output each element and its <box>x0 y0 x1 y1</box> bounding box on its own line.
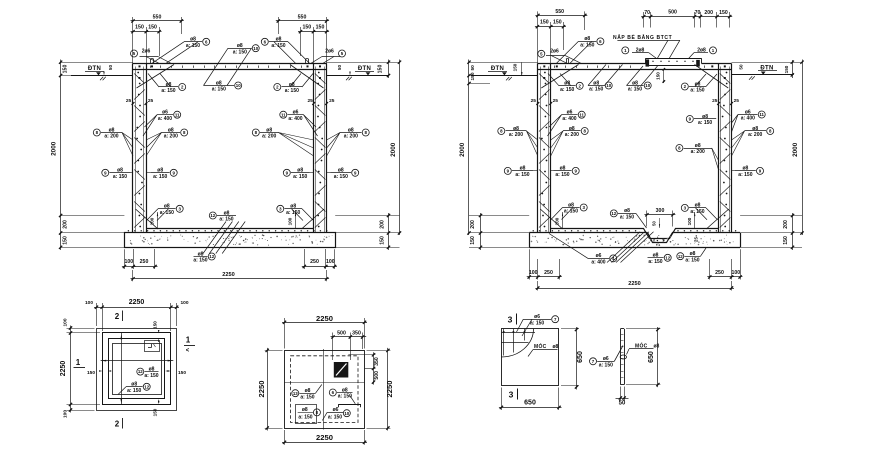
svg-text:a: 150: a: 150 <box>698 120 712 126</box>
svg-text:ø8: ø8 <box>702 114 708 120</box>
svg-text:ø6: ø6 <box>293 110 299 116</box>
svg-text:ø8: ø8 <box>569 126 575 132</box>
svg-text:200: 200 <box>704 10 713 16</box>
svg-text:150: 150 <box>153 408 158 416</box>
svg-text:150: 150 <box>470 72 476 80</box>
svg-text:a: 150: a: 150 <box>560 87 574 93</box>
svg-text:ø6: ø6 <box>603 356 609 362</box>
svg-text:200: 200 <box>380 220 386 229</box>
svg-text:a: 150: a: 150 <box>338 394 352 400</box>
svg-text:a: 400: a: 400 <box>288 116 302 122</box>
svg-text:a: 200: a: 200 <box>509 132 523 138</box>
svg-text:ø8: ø8 <box>190 37 196 43</box>
svg-text:150: 150 <box>513 63 518 71</box>
svg-text:200: 200 <box>63 220 69 229</box>
svg-text:2250: 2250 <box>316 433 333 442</box>
svg-text:12: 12 <box>678 254 683 259</box>
svg-text:150: 150 <box>470 236 476 245</box>
svg-text:550: 550 <box>298 15 307 21</box>
svg-text:100: 100 <box>124 259 133 265</box>
svg-text:70: 70 <box>695 10 701 16</box>
svg-text:a: 150: a: 150 <box>515 172 529 178</box>
svg-text:2ø6: 2ø6 <box>550 49 559 55</box>
svg-text:50: 50 <box>337 65 342 71</box>
svg-text:ø8: ø8 <box>117 168 123 174</box>
svg-text:250: 250 <box>310 259 319 265</box>
svg-text:a: 150: a: 150 <box>193 258 207 264</box>
svg-text:a: 150: a: 150 <box>212 87 226 93</box>
svg-text:ø6: ø6 <box>596 253 602 259</box>
svg-text:25: 25 <box>148 98 154 104</box>
svg-text:150: 150 <box>540 20 549 26</box>
svg-text:2250: 2250 <box>60 361 67 377</box>
svg-text:100: 100 <box>63 410 69 418</box>
svg-text:a: 150: a: 150 <box>233 49 247 55</box>
svg-text:3: 3 <box>509 390 514 400</box>
svg-text:a: 150: a: 150 <box>555 172 569 178</box>
svg-text:11: 11 <box>281 112 286 117</box>
svg-text:ø8: ø8 <box>305 388 311 394</box>
svg-text:150: 150 <box>63 65 69 74</box>
svg-text:a: 150: a: 150 <box>648 259 662 265</box>
svg-text:ø6: ø6 <box>745 109 751 115</box>
svg-text:ø6: ø6 <box>567 110 573 116</box>
svg-text:ø8: ø8 <box>568 202 574 208</box>
svg-text:a: 150: a: 150 <box>300 394 314 400</box>
svg-text:a: 150: a: 150 <box>334 174 348 180</box>
svg-text:a: 150: a: 150 <box>293 174 307 180</box>
svg-text:ø8: ø8 <box>164 204 170 210</box>
svg-text:a: 150: a: 150 <box>530 320 544 326</box>
svg-text:13: 13 <box>293 391 298 396</box>
svg-text:ø8: ø8 <box>157 168 163 174</box>
svg-text:a: 200: a: 200 <box>104 134 118 140</box>
svg-text:a: 400: a: 400 <box>562 116 576 122</box>
svg-text:350: 350 <box>352 330 361 336</box>
svg-text:a: 150: a: 150 <box>738 172 752 178</box>
svg-text:a: 400: a: 400 <box>158 116 172 122</box>
svg-text:2250: 2250 <box>628 281 640 287</box>
svg-text:2: 2 <box>115 312 120 321</box>
svg-text:25: 25 <box>308 98 314 104</box>
svg-text:a: 150: a: 150 <box>285 88 299 94</box>
svg-text:ø8: ø8 <box>297 168 303 174</box>
svg-text:100: 100 <box>63 318 69 326</box>
svg-text:a: 150: a: 150 <box>144 373 158 379</box>
svg-text:150: 150 <box>719 10 728 16</box>
svg-text:ø8: ø8 <box>520 166 526 172</box>
svg-text:250: 250 <box>544 270 553 276</box>
svg-text:a: 150: a: 150 <box>328 414 342 420</box>
svg-text:150: 150 <box>178 370 186 376</box>
svg-text:ø8: ø8 <box>302 407 308 413</box>
svg-text:150: 150 <box>148 25 157 31</box>
svg-text:25: 25 <box>553 98 559 104</box>
svg-text:25: 25 <box>329 98 335 104</box>
svg-text:100: 100 <box>731 270 740 276</box>
svg-text:250: 250 <box>140 259 149 265</box>
svg-text:2250: 2250 <box>222 272 234 278</box>
svg-text:150: 150 <box>302 25 311 31</box>
svg-text:10: 10 <box>236 83 241 88</box>
svg-text:ø8: ø8 <box>131 382 137 388</box>
svg-text:2000: 2000 <box>390 142 397 157</box>
svg-text:11: 11 <box>175 112 180 117</box>
svg-text:25: 25 <box>734 98 740 104</box>
svg-text:ø6: ø6 <box>333 407 339 413</box>
svg-text:a: 150: a: 150 <box>628 87 642 93</box>
svg-text:300: 300 <box>656 208 665 214</box>
svg-text:150: 150 <box>380 236 386 245</box>
svg-text:ø6: ø6 <box>162 110 168 116</box>
svg-text:ø8: ø8 <box>237 43 243 49</box>
svg-text:ø8: ø8 <box>593 80 599 86</box>
svg-text:250: 250 <box>715 270 724 276</box>
svg-text:a: 150: a: 150 <box>685 257 699 263</box>
svg-text:550: 550 <box>555 9 564 15</box>
svg-text:10: 10 <box>344 411 349 416</box>
svg-text:3: 3 <box>508 315 513 325</box>
svg-text:ø8: ø8 <box>695 143 701 149</box>
svg-text:150: 150 <box>378 65 384 74</box>
svg-text:500: 500 <box>374 371 380 380</box>
svg-text:150: 150 <box>553 20 562 26</box>
svg-text:50: 50 <box>470 65 476 71</box>
svg-text:NẮP BỂ BẰNG BTCT: NẮP BỂ BẰNG BTCT <box>613 33 672 41</box>
svg-text:200: 200 <box>470 220 476 229</box>
svg-text:11: 11 <box>579 112 584 117</box>
svg-text:50: 50 <box>652 221 657 226</box>
svg-text:2000: 2000 <box>459 142 466 157</box>
svg-text:25: 25 <box>712 98 718 104</box>
svg-text:a: 400: a: 400 <box>741 116 755 122</box>
svg-text:a: 200: a: 200 <box>691 149 705 155</box>
svg-text:ø8: ø8 <box>198 251 204 257</box>
svg-text:a: 200: a: 200 <box>262 134 276 140</box>
svg-text:a: 200: a: 200 <box>748 132 762 138</box>
svg-text:ø8: ø8 <box>752 126 758 132</box>
svg-text:ø8: ø8 <box>653 253 659 259</box>
svg-text:12: 12 <box>209 254 214 259</box>
svg-text:ø8: ø8 <box>560 166 566 172</box>
svg-text:a: 150: a: 150 <box>589 87 603 93</box>
svg-text:2250: 2250 <box>129 299 145 306</box>
svg-text:350: 350 <box>374 357 380 366</box>
svg-text:150: 150 <box>153 321 158 329</box>
svg-text:a: 200: a: 200 <box>164 134 178 140</box>
svg-text:150: 150 <box>135 25 144 31</box>
svg-text:2ø6: 2ø6 <box>325 48 334 54</box>
svg-text:a: 150: a: 150 <box>113 174 127 180</box>
svg-text:12: 12 <box>138 369 143 374</box>
svg-text:100: 100 <box>150 217 155 225</box>
svg-text:150: 150 <box>783 236 789 245</box>
svg-text:ø8: ø8 <box>224 210 230 216</box>
svg-text:150: 150 <box>63 236 69 245</box>
svg-text:a: 150: a: 150 <box>219 217 233 223</box>
svg-text:ø8: ø8 <box>742 166 748 172</box>
svg-text:150: 150 <box>87 370 95 376</box>
svg-text:<: < <box>186 348 190 354</box>
svg-text:150: 150 <box>784 65 789 73</box>
svg-text:50: 50 <box>108 65 113 71</box>
svg-text:a: 150: a: 150 <box>153 174 167 180</box>
svg-text:100: 100 <box>555 217 560 225</box>
svg-text:150: 150 <box>656 72 661 80</box>
svg-text:ø8: ø8 <box>553 344 559 350</box>
svg-text:ø8: ø8 <box>276 37 282 43</box>
svg-text:100: 100 <box>288 217 293 225</box>
svg-text:100: 100 <box>687 217 692 225</box>
svg-text:25: 25 <box>126 98 132 104</box>
svg-text:650: 650 <box>577 351 584 363</box>
svg-text:ø8: ø8 <box>584 36 590 42</box>
svg-text:12: 12 <box>210 213 215 218</box>
svg-text:10: 10 <box>606 83 611 88</box>
svg-text:ø8: ø8 <box>168 127 174 133</box>
svg-text:ø8: ø8 <box>348 127 354 133</box>
svg-text:650: 650 <box>524 400 536 407</box>
svg-text:2ø6: 2ø6 <box>142 48 151 54</box>
svg-text:a: 400: a: 400 <box>591 260 605 266</box>
svg-text:500: 500 <box>337 330 346 336</box>
svg-text:a: 150: a: 150 <box>298 414 312 420</box>
svg-text:2: 2 <box>115 420 120 429</box>
svg-text:550: 550 <box>153 15 162 21</box>
svg-text:150: 150 <box>316 25 325 31</box>
svg-text:12: 12 <box>665 255 670 260</box>
svg-text:10: 10 <box>253 46 258 51</box>
svg-text:11: 11 <box>759 112 764 117</box>
svg-text:ø8: ø8 <box>632 80 638 86</box>
svg-text:a: 150: a: 150 <box>620 215 634 221</box>
svg-text:MÓC: MÓC <box>534 342 547 350</box>
svg-text:ø8: ø8 <box>338 168 344 174</box>
svg-text:500: 500 <box>668 9 677 15</box>
svg-text:ø8: ø8 <box>695 203 701 209</box>
svg-text:ø8: ø8 <box>290 204 296 210</box>
svg-text:100: 100 <box>85 300 93 306</box>
svg-text:2250: 2250 <box>257 381 266 398</box>
svg-text:a: 150: a: 150 <box>690 88 704 94</box>
svg-text:ø8: ø8 <box>513 126 519 132</box>
svg-text:ø8: ø8 <box>149 366 155 372</box>
svg-text:2000: 2000 <box>792 142 799 157</box>
svg-text:50: 50 <box>739 64 744 70</box>
svg-text:a: 150: a: 150 <box>127 388 141 394</box>
svg-text:ø8: ø8 <box>109 127 115 133</box>
svg-text:100: 100 <box>326 259 335 265</box>
svg-text:10: 10 <box>645 83 650 88</box>
svg-text:ø8: ø8 <box>216 80 222 86</box>
svg-text:100: 100 <box>180 300 188 306</box>
svg-text:1: 1 <box>76 358 81 367</box>
svg-text:ø8: ø8 <box>690 251 696 257</box>
svg-text:a: 200: a: 200 <box>565 132 579 138</box>
svg-text:ø8: ø8 <box>266 127 272 133</box>
svg-text:50: 50 <box>619 401 626 407</box>
svg-text:ø8: ø8 <box>624 208 630 214</box>
svg-text:100: 100 <box>529 270 538 276</box>
svg-text:25: 25 <box>531 98 537 104</box>
svg-text:1: 1 <box>186 336 191 345</box>
svg-text:ø8: ø8 <box>654 344 660 350</box>
svg-text:12: 12 <box>611 211 616 216</box>
svg-text:2250: 2250 <box>316 314 333 323</box>
svg-text:25: 25 <box>694 237 699 242</box>
svg-text:2000: 2000 <box>51 141 58 156</box>
svg-text:ø6: ø6 <box>534 314 540 320</box>
svg-text:ø8: ø8 <box>342 387 348 393</box>
svg-text:2250: 2250 <box>385 381 394 398</box>
svg-text:12: 12 <box>144 384 149 389</box>
svg-text:650: 650 <box>648 351 655 363</box>
svg-text:a: 150: a: 150 <box>599 363 613 369</box>
svg-text:a: 150: a: 150 <box>161 88 175 94</box>
svg-text:a: 200: a: 200 <box>344 134 358 140</box>
svg-text:200: 200 <box>783 220 789 229</box>
svg-text:70: 70 <box>644 10 650 16</box>
